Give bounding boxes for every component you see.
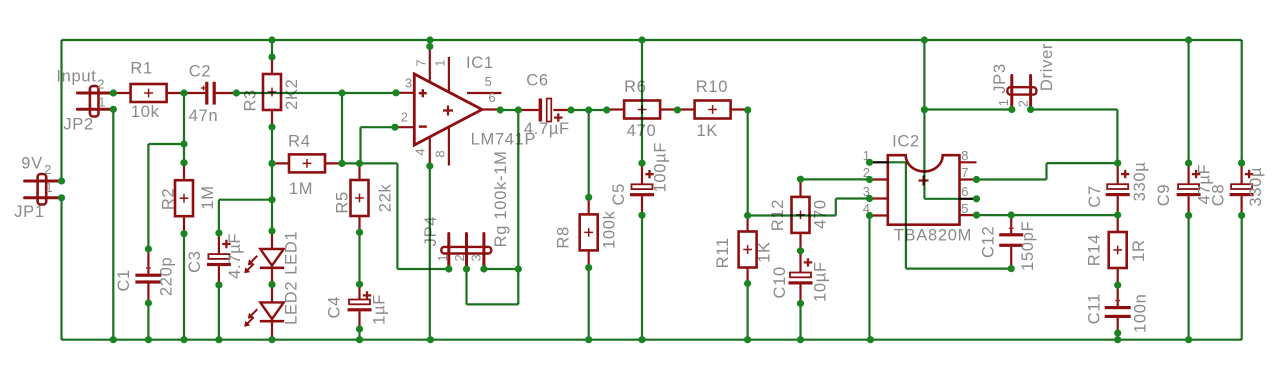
junction at (924.4,40) [921, 36, 928, 43]
junction at (184,162.7) [180, 159, 187, 166]
wire C9 bottom to GND [1187, 215, 1189, 339]
label C5 [610, 183, 628, 206]
label 47n [189, 107, 219, 125]
pin number 8 [432, 150, 447, 158]
svg-text:100µF: 100µF [651, 142, 669, 193]
wire R12 top to IC2 pin2 [801, 178, 870, 180]
label 1R [1130, 239, 1148, 262]
svg-text:6: 6 [961, 184, 969, 199]
wire feedback column to JP4 [517, 110, 519, 304]
wire R4 to R5 node [342, 162, 360, 164]
junction at (359.5,232.3) [356, 229, 363, 236]
svg-text:C6: C6 [526, 72, 549, 90]
pin number 2 [44, 162, 52, 177]
label 150pF [1019, 221, 1037, 271]
svg-text:C1: C1 [115, 269, 133, 292]
label R3 [241, 89, 259, 112]
svg-text:8: 8 [432, 150, 447, 158]
junction at (359.5,284.3) [356, 281, 363, 288]
junction at (1117.7,339.7) [1114, 336, 1121, 343]
junction at (1188.6,339.7) [1185, 336, 1192, 343]
junction at (184,233.7) [180, 230, 187, 237]
wire C3 bottom to GND [218, 285, 220, 340]
junction at (342,93) [338, 89, 345, 96]
svg-text:2K2: 2K2 [283, 78, 301, 109]
svg-text:3: 3 [469, 254, 484, 262]
junction at (869.5,162.3) [866, 159, 873, 166]
svg-text:100n: 100n [1132, 293, 1150, 333]
label IC2 [892, 133, 920, 151]
junction at (429.8,166) [426, 162, 433, 169]
wire R5 node to JP4 pin1 [360, 163, 449, 269]
capacitor C4 [348, 284, 372, 329]
capacitor C10 [789, 251, 813, 303]
capacitor C2 [184, 82, 236, 105]
svg-text:C12: C12 [980, 226, 998, 258]
pin number 6 [488, 90, 496, 105]
svg-text:8: 8 [961, 148, 969, 163]
svg-text:C3: C3 [186, 250, 204, 273]
junction at (1241.6,215.4) [1238, 212, 1245, 219]
label R6 [624, 78, 647, 96]
svg-text:IC1: IC1 [466, 54, 494, 72]
wire GND bottom rail [62, 339, 1242, 341]
wire IC1 pin7 to +9V [429, 40, 431, 47]
svg-text:2: 2 [44, 162, 52, 177]
junction at (272,127) [268, 123, 275, 130]
svg-text:1K: 1K [697, 122, 719, 140]
pin number 1 [435, 254, 450, 262]
label JP1 [14, 203, 45, 221]
junction at (184,144) [180, 140, 187, 147]
junction at (466.5,269) [463, 265, 470, 272]
pin number 1 [98, 94, 106, 109]
label IC1 [466, 54, 494, 72]
label 1M [289, 180, 313, 198]
junction at (976.5,215.1) [973, 212, 980, 219]
junction at (218.9,233) [215, 229, 222, 236]
junction at (184,93) [180, 89, 187, 96]
pin number 3 [863, 184, 871, 199]
wire R2 bottom to GND [183, 234, 185, 340]
label 10µF [812, 261, 830, 302]
label C11 [1086, 293, 1104, 324]
svg-text:C10: C10 [771, 266, 789, 298]
junction at (606.8,110) [603, 106, 610, 113]
junction at (430,40) [426, 36, 433, 43]
pin number 2 [452, 254, 467, 262]
label JP4 [422, 216, 440, 247]
junction at (870.5,339.7) [867, 336, 874, 343]
wire C4 bottom to GND [358, 329, 360, 340]
junction at (642,163.2) [638, 160, 645, 167]
svg-text:JP2: JP2 [63, 116, 94, 134]
junction at (747.7,110) [744, 106, 751, 113]
label 100n [1132, 293, 1150, 333]
junction at (272,231) [268, 227, 275, 234]
label 9V [21, 154, 43, 172]
svg-text:2: 2 [97, 76, 105, 91]
junction at (869.5,198.5) [866, 195, 873, 202]
capacitor C12 [999, 215, 1023, 269]
connector JP1 (9V) [25, 174, 62, 205]
svg-text:220p: 220p [157, 257, 175, 297]
svg-text:JP1: JP1 [14, 203, 45, 221]
label C9 [1155, 184, 1173, 207]
label 1K [697, 122, 719, 140]
label 47µF [1196, 164, 1214, 205]
wire IC2 pin7 to C7 top [977, 163, 1118, 179]
svg-text:R1: R1 [130, 60, 153, 78]
capacitor C9 [1177, 163, 1201, 215]
label 100µF [651, 142, 669, 193]
LED LED2 [244, 284, 284, 337]
junction at (1011.2,268.6) [1008, 265, 1015, 272]
junction at (747.6,283.5) [744, 280, 751, 287]
junction at (571,110) [567, 106, 574, 113]
label Driver [1038, 43, 1056, 91]
pin number 7 [413, 59, 428, 67]
junction at (1117.7,333) [1114, 329, 1121, 336]
svg-text:5: 5 [485, 74, 493, 89]
junction at (359.5,339.7) [356, 336, 363, 343]
wire +9V to JP3/IC2 pin6 [924, 40, 976, 199]
capacitor C5 [630, 163, 654, 215]
svg-text:330µ: 330µ [1247, 167, 1265, 207]
label LED1 [282, 231, 300, 275]
junction at (1188.6,215.4) [1185, 212, 1192, 219]
label LED2 [282, 281, 300, 325]
svg-text:1R: 1R [1130, 239, 1148, 262]
junction at (272,284.4) [268, 281, 275, 288]
junction at (483.9,269) [480, 265, 487, 272]
junction at (272,40) [268, 36, 275, 43]
pin number 6 [961, 184, 969, 199]
pin number 2 [97, 76, 105, 91]
junction at (869.5,179.5) [866, 176, 873, 183]
capacitor C6 [518, 99, 571, 122]
label R5 [333, 191, 351, 214]
label C2 [189, 62, 212, 80]
label Rg 100k-1M [492, 150, 510, 247]
wire left border lower (JP1.1 to GND) [60, 198, 62, 340]
label R8 [554, 226, 572, 249]
junction at (395,127.2) [391, 124, 398, 131]
svg-text:R8: R8 [554, 226, 572, 249]
wire R1/C2 node down [148, 93, 184, 249]
label R14 [1086, 234, 1104, 266]
junction at (800.5,250.8) [797, 247, 804, 254]
svg-text:R6: R6 [624, 78, 647, 96]
wire JP3 pin2 to C7 top [1031, 110, 1118, 164]
svg-text:2: 2 [401, 109, 409, 124]
junction at (1011.8,109.5) [1008, 106, 1015, 113]
svg-text:1: 1 [433, 59, 448, 67]
wire R8 top tap [588, 110, 590, 197]
junction at (430.5,339.7) [427, 336, 434, 343]
wire R5 bottom to C4 [358, 232, 360, 284]
label C7 [1086, 185, 1104, 208]
svg-text:LED2: LED2 [282, 281, 300, 325]
IC U2 TBA820M [870, 155, 977, 225]
junction at (1030.6,109.5) [1027, 106, 1034, 113]
svg-text:R10: R10 [696, 78, 728, 96]
wire IC1 pin2 to R5 node [361, 127, 396, 163]
junction at (1117.7,285.1) [1114, 282, 1121, 289]
pin number 2 [401, 109, 409, 124]
junction at (800.5,303.4) [797, 300, 804, 307]
junction at (1188.6,163.1) [1185, 160, 1192, 167]
svg-text:C5: C5 [610, 183, 628, 206]
pin number 4 [412, 148, 427, 156]
svg-text:Driver: Driver [1038, 43, 1056, 91]
junction at (61.5,197.8) [58, 194, 65, 201]
junction at (218.9,284.9) [215, 281, 222, 288]
junction at (272,57) [268, 53, 275, 60]
svg-text:22k: 22k [376, 183, 394, 212]
svg-text:9V: 9V [21, 154, 43, 172]
svg-text:R4: R4 [288, 133, 311, 151]
junction at (588.7,267.6) [585, 264, 592, 271]
pin number 5 [961, 201, 969, 216]
svg-text:C9: C9 [1155, 184, 1173, 207]
wire node to C3 [219, 200, 272, 233]
label R12 [769, 199, 787, 231]
junction at (184,339.7) [180, 336, 187, 343]
junction at (148.4,249) [145, 245, 152, 252]
junction at (236.4,93) [233, 89, 240, 96]
wire IC1 output to C6 [500, 109, 518, 111]
svg-text:1M: 1M [289, 180, 313, 198]
wire node to LED1 [271, 200, 273, 231]
label 1µF [371, 294, 389, 325]
resistor R12 [792, 179, 810, 251]
wire R11 bottom to GND [746, 284, 748, 340]
pin number 2 [863, 165, 871, 180]
pin number 8 [961, 148, 969, 163]
label C3 [186, 250, 204, 273]
label C8 [1210, 184, 1228, 207]
label 330µ [1247, 167, 1265, 207]
junction at (1011.2,215) [1008, 211, 1015, 218]
junction at (518.3,269) [515, 265, 522, 272]
svg-text:1: 1 [996, 99, 1011, 107]
junction at (869.5,215.5) [866, 212, 873, 219]
op-amp IC1 [395, 47, 502, 167]
wire C8 top to +9V (right border) [1241, 40, 1243, 163]
capacitor C11 [1105, 285, 1131, 333]
label 100k [601, 210, 619, 249]
connector JP4 [441, 234, 491, 270]
label R1 [130, 60, 153, 78]
resistor R4 [272, 154, 342, 172]
wire node to R2 top [183, 144, 185, 163]
pin number 3 [405, 76, 413, 91]
wire C5 top to +9V [641, 40, 643, 163]
junction at (1188.6,40) [1185, 36, 1192, 43]
wire C9 top to +9V [1187, 40, 1189, 163]
junction at (976.5,179.5) [973, 176, 980, 183]
junction at (588.7,197.3) [585, 194, 592, 201]
label C10 [771, 266, 789, 298]
resistor R8 [580, 197, 598, 267]
svg-text:10k: 10k [131, 103, 160, 121]
svg-text:5: 5 [961, 201, 969, 216]
wire R10 to IC2 pin3 [748, 110, 870, 216]
junction at (113.3,109.3) [110, 106, 117, 113]
svg-text:4.7µF: 4.7µF [226, 233, 244, 279]
capacitor C3 [207, 233, 231, 285]
label 22k [376, 183, 394, 212]
capacitor C8 [1230, 163, 1254, 215]
junction at (747.6,339.7) [744, 336, 751, 343]
resistor R6 [607, 101, 678, 119]
svg-text:470: 470 [812, 199, 830, 229]
svg-text:1K: 1K [756, 241, 774, 263]
label 470 [627, 122, 657, 140]
junction at (448.8,269) [445, 265, 452, 272]
svg-text:47n: 47n [189, 107, 219, 125]
junction at (500.2,110) [497, 106, 504, 113]
junction at (272,339.7) [268, 336, 275, 343]
label 1K [756, 241, 774, 263]
wire R8 bottom to GND [588, 268, 590, 340]
label 4.7µF [524, 120, 570, 138]
pin number 4 [863, 201, 871, 216]
junction at (272,163.4) [268, 160, 275, 167]
svg-text:C7: C7 [1086, 185, 1104, 208]
junction at (359.5,329) [356, 325, 363, 332]
pin number 2 [1015, 100, 1030, 108]
wire C2 to IC1 pin3 [236, 92, 396, 94]
junction at (588.7,339.7) [585, 336, 592, 343]
junction at (272,199.7) [268, 196, 275, 203]
label 2K2 [283, 78, 301, 109]
label JP3 [991, 63, 1009, 94]
label Input [56, 68, 96, 86]
junction at (642,40) [638, 36, 645, 43]
label R2 [160, 188, 178, 211]
connector JP2 (Input) [77, 86, 113, 117]
junction at (588.7,110) [585, 106, 592, 113]
wire C6 to R6 [571, 109, 607, 111]
pin number 1 [996, 99, 1011, 107]
svg-text:1: 1 [98, 94, 106, 109]
label JP2 [63, 116, 94, 134]
pin number 3 [469, 254, 484, 262]
wire C10 bottom to GND [799, 303, 801, 339]
junction at (218.9,339.7) [215, 336, 222, 343]
wire JP4 pin3 to feedback [484, 268, 518, 270]
svg-text:7: 7 [961, 165, 969, 180]
svg-text:C4: C4 [325, 296, 343, 319]
wire C11 bottom to GND [1117, 333, 1119, 340]
junction at (800.5,339.7) [797, 336, 804, 343]
svg-text:2: 2 [1015, 100, 1030, 108]
junction at (396,92.8) [392, 89, 399, 96]
label R4 [288, 133, 311, 151]
junction at (677.4,110) [674, 106, 681, 113]
resistor R2 [175, 163, 193, 234]
resistor R10 [677, 101, 747, 119]
resistor R3 [263, 57, 281, 127]
junction at (976.5,198.8) [973, 195, 980, 202]
svg-text:10µF: 10µF [812, 261, 830, 302]
pin number 1 [433, 59, 448, 67]
wire R3 top to +9V [271, 40, 273, 57]
svg-text:R5: R5 [333, 191, 351, 214]
svg-text:C2: C2 [189, 62, 212, 80]
label 220p [157, 257, 175, 297]
svg-text:1µF: 1µF [371, 294, 389, 325]
svg-text:4.7µF: 4.7µF [524, 120, 570, 138]
pin number 7 [961, 165, 969, 180]
svg-text:4: 4 [412, 148, 427, 156]
connector JP3 (Driver) [1007, 76, 1036, 111]
label 470 [812, 199, 830, 229]
wire IC1 pin4 to GND [429, 166, 431, 340]
junction at (113.3,93) [110, 89, 117, 96]
label LM741P [471, 130, 537, 148]
junction at (747.6,215.5) [744, 212, 751, 219]
label 4.7µF [226, 233, 244, 279]
svg-text:JP3: JP3 [991, 63, 1009, 94]
wire JP2 pin1 to GND [112, 109, 114, 339]
wire C8 bottom to GND (right border) [1241, 215, 1243, 339]
wire R3 bottom to R4 node [271, 127, 273, 200]
wire +9V top rail [62, 39, 1242, 41]
junction at (148.4,303) [145, 299, 152, 306]
svg-text:C11: C11 [1086, 293, 1104, 324]
pin number 5 [485, 74, 493, 89]
junction at (342,163.4) [338, 160, 345, 167]
label 1M [199, 185, 217, 209]
svg-text:1: 1 [435, 254, 450, 262]
svg-text:R11: R11 [714, 237, 732, 268]
svg-text:2: 2 [452, 254, 467, 262]
pin number 1 [45, 180, 53, 195]
resistor R11 [739, 216, 757, 284]
svg-text:LED1: LED1 [282, 231, 300, 275]
wire C5 bottom to GND [641, 215, 643, 340]
label C1 [115, 269, 133, 292]
wire left border upper (+9V to JP1.2) [60, 40, 62, 181]
wire IC2 pin1 to C12 bottom [870, 162, 1012, 268]
svg-text:330µ: 330µ [1131, 161, 1149, 201]
label C6 [526, 72, 549, 90]
label C12 [980, 226, 998, 258]
label R11 [714, 237, 732, 268]
svg-text:150pF: 150pF [1019, 221, 1037, 271]
junction at (800.5,179.2) [797, 176, 804, 183]
svg-text:3: 3 [405, 76, 413, 91]
junction at (924.4,109.7) [921, 106, 928, 113]
wire JP4 pin2 loop [467, 269, 519, 304]
junction at (113.3,339.7) [110, 336, 117, 343]
svg-text:6: 6 [488, 90, 496, 105]
wire JP3 pin1 branch [924, 108, 1011, 110]
svg-text:7: 7 [413, 59, 428, 67]
junction at (642,339.7) [638, 336, 645, 343]
wire C1 bottom to GND [147, 303, 149, 340]
svg-text:R2: R2 [160, 188, 178, 211]
label C4 [325, 296, 343, 319]
svg-text:1M: 1M [199, 185, 217, 209]
pin number 1 [863, 148, 871, 163]
svg-text:R14: R14 [1086, 234, 1104, 266]
wire IC2 pin4 to GND [868, 216, 870, 340]
junction at (429.8,46.5) [426, 43, 433, 50]
